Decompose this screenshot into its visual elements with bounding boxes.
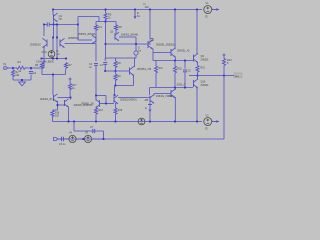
wire Qm col up (114, 86, 116, 97)
resistor R1 (series) (17, 66, 27, 69)
resistor R10 (vbe mult) (173, 66, 176, 74)
wire y=74 link (42, 74, 66, 76)
capacitor C7 (92, 129, 94, 133)
wire Q8b collector up (174, 88, 176, 91)
svg-text:R14: R14 (99, 109, 104, 112)
wire R18 to rail corner (52, 118, 54, 122)
svg-text:R10: R10 (178, 68, 183, 71)
wire R14 to rail (95, 115, 97, 122)
resistor R13 (load) (222, 59, 225, 67)
transistor Q8b (lower pre) (170, 90, 172, 97)
junction bias bot x=175 (174, 87, 176, 89)
resistor R17 (69, 84, 72, 91)
capacitor C2 (shunt) (29, 71, 33, 73)
wire mirror loop h (96, 95, 106, 97)
svg-text:out: out (235, 74, 239, 78)
junction V- rail x=96 (95, 121, 97, 123)
wire comp left down (104, 58, 106, 61)
wire chain c (76, 138, 84, 140)
wire x=185 top (184, 61, 186, 69)
junction x=57 y=24.5 (56, 24, 58, 26)
wire Q5 base right (65, 43, 97, 45)
wire output run left (189, 75, 198, 77)
wire x=78 riser (77, 17, 79, 41)
wire Q13b collector (70, 98, 72, 100)
capacitor C5 (bias byp) (183, 69, 187, 71)
capacitor C6 (61, 137, 63, 141)
wire right col mid (115, 31, 117, 34)
wire Q6 collector up (134, 58, 136, 67)
svg-text:A/B: A/B (145, 99, 149, 102)
junction V- rail x=74 (73, 121, 75, 123)
wire y=131 down (103, 131, 105, 139)
junction V+ rail x=135 (134, 9, 136, 11)
wire load node down (223, 76, 225, 140)
svg-text:R15: R15 (118, 109, 123, 112)
junction diff center top B (56, 37, 58, 39)
svg-text:2N5401_740BEA: 2N5401_740BEA (156, 95, 174, 98)
wire Q6 emitter down (133, 75, 135, 86)
svg-text:IN: IN (4, 63, 7, 66)
wire ground return rail (57, 138, 224, 140)
wire Q13 emitter jog (53, 109, 58, 111)
wire diff bottom bar (42, 58, 68, 60)
wire into center bar (98, 17, 100, 22)
capacitor C3 (feedback) (94, 63, 98, 65)
wire R11 top stub (155, 61, 157, 67)
wire Q7 emitter down (152, 49, 154, 61)
wire input a (8, 67, 13, 69)
svg-text:R18: R18 (55, 113, 60, 115)
wire chain d (92, 138, 104, 140)
wire V- rail (53, 121, 203, 123)
resistor R2 (shunt) (11, 70, 14, 77)
wire x=44 input Q base (43, 25, 45, 37)
wire R12 bot (197, 73, 199, 76)
wire Q13 collector link (58, 97, 71, 99)
resistor R6 (deg left) (40, 63, 43, 70)
junction V- rail x=197 (196, 121, 198, 123)
wire mirror R emitter (115, 103, 117, 108)
wire comp y=71 bus (105, 70, 129, 72)
svg-text:2N5551_2N5551A: 2N5551_2N5551A (156, 43, 176, 46)
svg-text:2N5551/2N5401: 2N5551/2N5401 (120, 100, 137, 102)
junction input x=31 (30, 67, 32, 69)
wire Qpre base link (153, 52, 171, 54)
no-connect cross on load top (223, 54, 226, 57)
wire Q13b emitter down (68, 107, 70, 122)
junction input x=13 (12, 67, 14, 69)
junction comp x=105.2 y=71 (104, 70, 106, 72)
wire x=197 rail to Q9 (196, 10, 198, 55)
wire device right pin (49, 24, 56, 26)
wire Q9 emitter (197, 62, 199, 66)
capacitor C1 (rotated device) (46, 23, 48, 27)
wire R7 bottom (65, 69, 67, 75)
svg-text:2N5401_2N: 2N5401_2N (40, 99, 53, 101)
wire fb col upper (95, 44, 97, 62)
junction V+ rail / Q1 column (52, 9, 54, 11)
wire Q10 emitter up (197, 76, 199, 80)
wire tail right (56, 38, 58, 59)
wire tail left (52, 38, 54, 51)
wire Qpre emitter (174, 57, 176, 61)
wire R17 bottom stub (69, 91, 71, 98)
wire comp top bar (105, 57, 115, 59)
junction V- rail x=150 (149, 121, 151, 123)
wire tail circle down (51, 57, 53, 58)
wire Q8b base left (154, 93, 171, 95)
junction V+ rail x=197 (196, 9, 198, 11)
wire x=74 rail drop (73, 122, 75, 132)
transistor Q2 (95, 36, 97, 43)
wire x=175 rail to Qpre (174, 10, 176, 50)
junction V+ rail x=150 (149, 9, 151, 11)
wire center bar (96, 21, 116, 23)
junction x=96 y=95.5 (95, 95, 97, 97)
voltage source V2 (negative supply) (204, 118, 212, 126)
wire right col top (115, 22, 117, 26)
junction x=103.5 y=139 (103, 138, 105, 140)
svg-text:2N5401: 2N5401 (201, 85, 210, 87)
transistor Q3 (114, 33, 116, 40)
wire y=85.5 link (116, 85, 134, 87)
svg-text:2m: 2m (138, 51, 141, 53)
resistor R8 (comp) (114, 61, 117, 69)
junction chain x=83 (82, 138, 84, 140)
wire out label lead (224, 75, 234, 77)
svg-text:4m: 4m (57, 54, 60, 56)
wire bias bar bottom (150, 87, 194, 89)
net arrow at V2 (212, 121, 219, 123)
wire R10 top (174, 61, 176, 67)
wire shunt R down (12, 68, 14, 70)
wire mirror loop v (105, 96, 107, 104)
voltage source V1 (positive supply) (204, 6, 212, 14)
junction V- rail x=175 (174, 121, 176, 123)
wire shunt R bot (12, 78, 14, 81)
wire chain b (63, 138, 69, 140)
port flag bottom (54, 138, 58, 141)
transistor Q10 (bottom driver) (193, 80, 195, 87)
junction x=57.5 y=105 (57, 104, 59, 106)
wire Q10 collector down (196, 88, 198, 122)
junction bar x=105.5 (105, 21, 107, 23)
junction output node (197, 75, 199, 77)
wire I1 to bar (135, 55, 137, 58)
junction comp x=115.5 y=71 (115, 70, 117, 72)
wire x=105 y44 to box (105, 44, 107, 58)
svg-text:2N5551: 2N5551 (201, 60, 210, 62)
wire comp bar ext (116, 57, 137, 59)
wire I1 stub (135, 44, 137, 51)
resistor R18 (Q13 emitter) (51, 111, 54, 118)
wire Q1 collector to rail (52, 10, 54, 15)
svg-text:10m: 10m (145, 7, 150, 9)
transistor Q13 (53, 95, 55, 101)
transistor Q5 (input right) (59, 40, 61, 47)
wire Qa emitter col (149, 103, 151, 122)
wire mirror base link (100, 103, 115, 105)
svg-text:2N5551C: 2N5551C (68, 36, 79, 40)
junction diff center top A (52, 37, 54, 39)
wire left col mid (95, 31, 97, 37)
svg-text:SIGE_A: SIGE_A (177, 84, 186, 87)
junction gnd bar (21, 79, 23, 81)
wire mirror L col (95, 96, 97, 101)
junction x=105.5 y=44 (105, 43, 107, 45)
wire x=53 down (52, 75, 54, 93)
junction x=53.5 y=24.5 (53, 24, 55, 26)
junction x=44 y=24.5 (43, 24, 45, 26)
wire R10 bot (174, 74, 176, 88)
wire device left pin (44, 24, 47, 26)
wire x=105.5 bar to y44 (105, 22, 107, 45)
svg-text:2N5551_2N5401: 2N5551_2N5401 (78, 34, 96, 36)
wire x=53 into Q13 (52, 92, 54, 95)
junction V+ rail x=175 (174, 9, 176, 11)
junction bias top x=185 (184, 60, 186, 62)
transistor Q13b (64, 100, 66, 106)
junction bias top x=175 (174, 60, 176, 62)
svg-text:2N5551C: 2N5551C (30, 43, 41, 47)
transistor Q4 (input left) (46, 40, 48, 47)
wire R9 top (115, 71, 117, 74)
wire fb col lower (95, 66, 97, 96)
svg-text:C6 1u: C6 1u (59, 143, 66, 146)
wire Q13b base link (58, 104, 65, 106)
junction Qm top (114, 94, 116, 96)
wire Q4 base down to input (43, 47, 45, 69)
wire mirror L emitter (95, 107, 97, 108)
junction x=53 y=74.5 (52, 74, 54, 76)
wire load top stub (223, 57, 225, 59)
wire y=44 bus (106, 43, 152, 45)
wire R9 bot (115, 82, 117, 86)
wire staircase right (51, 24, 79, 26)
svg-text:Q10: Q10 (201, 81, 206, 84)
wire y=131 link (74, 130, 104, 132)
svg-text:2N5551_734: 2N5551_734 (137, 68, 152, 71)
svg-text:R11: R11 (159, 67, 164, 70)
resistor R12 (emitter) (196, 66, 199, 73)
svg-text:6m: 6m (137, 16, 140, 18)
junction V+ rail x=105 (105, 9, 107, 11)
svg-text:2N: 2N (59, 18, 62, 21)
wire R3 top (105, 10, 107, 14)
svg-text:2N5551_A2: 2N5551_A2 (177, 50, 190, 53)
wire R17 top stub (69, 81, 71, 84)
resistor R15 (mirror R emitter) (114, 108, 117, 115)
resistor R4 (94, 25, 97, 31)
wire x=185 bot (184, 72, 186, 88)
junction bar x=57 (56, 58, 58, 60)
voltage source V5 (84, 135, 91, 142)
wire R3 bottom to bar (105, 21, 107, 22)
voltage source V4 (69, 135, 76, 142)
wire Q13 emitter down (57, 101, 59, 110)
wire chain a (58, 138, 62, 140)
port IN flag (4, 67, 8, 69)
junction bar x=41.5 (41, 58, 43, 60)
wire comp left bot (104, 65, 106, 72)
wire comp right down (115, 58, 117, 61)
resistor R5 (114, 25, 117, 31)
resistor R14 (mirror L emitter) (94, 108, 97, 115)
transistor Q5b (pre-driver) (170, 49, 172, 56)
wire left col top (95, 22, 97, 26)
svg-text:CCS: CCS (42, 51, 47, 54)
junction load node (223, 75, 225, 77)
junction x=115.5 y=85.5 (115, 85, 117, 87)
junction V- rail x=68.5 (68, 121, 70, 123)
wire input c (27, 67, 45, 69)
current flag Ibias at rail (134, 10, 136, 17)
svg-text:R17: R17 (72, 85, 77, 87)
wire Q3 base drop (135, 37, 137, 44)
svg-text:R4: R4 (99, 25, 103, 29)
wire Q8b emitter down (174, 97, 176, 122)
transistor Q6 (129, 68, 131, 75)
junction x=136 y=44 (135, 43, 137, 45)
wire shunt C down (30, 68, 32, 70)
net label out (234, 73, 242, 78)
junction x=70.5 y=97.5 (70, 97, 72, 99)
capacitor C4 (comp) (103, 62, 107, 64)
resistor R9 (114, 74, 117, 81)
wire input b (13, 67, 17, 69)
wire y=16.5 to center (78, 16, 99, 18)
transistor Q12 (mirror right) (113, 96, 115, 103)
junction bias bot x=185 (184, 87, 186, 89)
wire x=57 down to diff (56, 25, 58, 38)
wire Qm to Qa base (118, 97, 150, 99)
wire input gnd bar (13, 79, 31, 81)
junction x=78 y=24.5 (77, 24, 79, 26)
junction bar x=66 (65, 58, 67, 60)
svg-text:C1N4148_B50C: C1N4148_B50C (36, 61, 54, 64)
net arrow at V1 (212, 9, 219, 11)
resistor R11 (154, 66, 157, 74)
wire R11 bottom stub (155, 74, 157, 88)
wire comp right mid (115, 69, 117, 72)
wire V+ rail (53, 9, 202, 11)
junction V- rail x=115 (115, 121, 117, 123)
resistor R3 (104, 13, 107, 21)
svg-text:R12: R12 (201, 67, 206, 70)
wire x=150 from rail (149, 10, 151, 39)
no-connect cross R17 top (69, 78, 72, 81)
wire R15 to rail (115, 115, 117, 122)
wire gnd stub (21, 80, 23, 82)
wire load to node (223, 67, 225, 76)
transistor Q7 (VAS) (147, 41, 149, 48)
transistor Q1 (53, 14, 55, 21)
wire shunt C bot (30, 75, 32, 81)
resistor R7 (deg right) (64, 63, 67, 70)
wire R6 bottom (41, 69, 43, 75)
transistor Q8 (Qa) (149, 96, 151, 103)
current source I1 (134, 51, 138, 55)
wire bias bar top (153, 60, 193, 62)
junction mirror center (105, 103, 107, 105)
svg-text:2N5401_2N5401C: 2N5401_2N5401C (74, 105, 93, 107)
svg-text:R1: R1 (18, 60, 22, 64)
svg-text:2N5401_2N5401: 2N5401_2N5401 (121, 35, 139, 37)
wire bar2 to Qa collector (149, 88, 151, 96)
current flag Ie (148, 104, 152, 106)
wire x=53.5 down to diff (53, 21, 55, 38)
current source I2 (tail) (48, 51, 55, 58)
wire Q2 base left (78, 39, 92, 41)
wire output to load (198, 75, 225, 77)
transistor Q9 (top driver) (193, 55, 195, 62)
voltage source V3 on rail (138, 118, 145, 125)
transistor Q11 (mirror left) (99, 100, 101, 107)
wire Q7 collector bend h (150, 38, 153, 40)
wire Qa top pin up (153, 94, 155, 96)
wire Q7 collector bend v (152, 39, 154, 42)
ground input (19, 82, 26, 86)
junction bar x=53 (52, 58, 54, 60)
wire Q3 base right (119, 36, 136, 38)
